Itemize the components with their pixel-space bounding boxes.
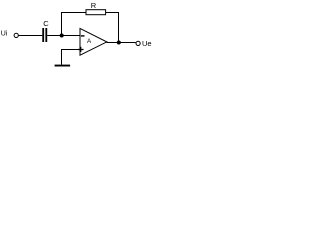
op-amp inverting input minus sign xyxy=(81,35,85,36)
op-amp non-inverting input plus sign xyxy=(78,47,84,52)
terminal Ui xyxy=(14,33,18,37)
wire feedback branch up and to resistor xyxy=(62,13,87,36)
junction node at output xyxy=(117,41,121,45)
resistor R xyxy=(86,10,106,15)
wire non-inverting input to ground xyxy=(62,50,81,65)
junction node at inverting input xyxy=(60,34,64,38)
op-amp U1 xyxy=(80,28,107,55)
background xyxy=(0,0,154,70)
ground xyxy=(55,65,71,67)
svg-text:Ui: Ui xyxy=(1,31,8,38)
svg-text:Ue: Ue xyxy=(142,39,152,48)
svg-text:C: C xyxy=(43,19,49,28)
wire resistor to output node xyxy=(106,13,119,43)
capacitor C xyxy=(42,28,47,42)
wire op-amp output to Ue terminal xyxy=(107,42,136,44)
svg-text:R: R xyxy=(91,1,97,10)
wire Ui terminal to capacitor xyxy=(19,35,43,37)
wire capacitor to inverting input xyxy=(47,35,80,37)
terminal Ue xyxy=(136,41,140,45)
